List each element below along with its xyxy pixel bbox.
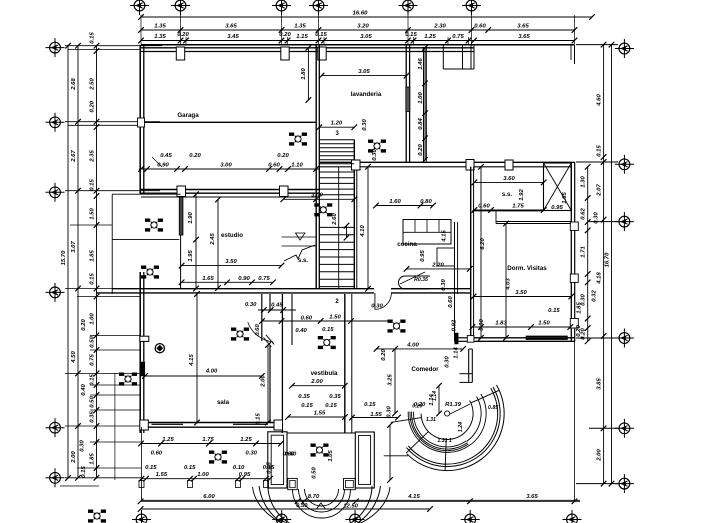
svg-text:2.35: 2.35 (89, 150, 95, 163)
garage bottom wall column 1 (177, 186, 186, 197)
svg-text:0.30: 0.30 (245, 302, 257, 308)
svg-text:0.20: 0.20 (279, 32, 291, 38)
stair second flight treads (319, 171, 354, 173)
sala door leaf (266, 335, 274, 345)
comedor radius center circle (445, 411, 450, 416)
svg-text:0.20: 0.20 (576, 325, 582, 337)
svg-text:4.15: 4.15 (189, 354, 195, 367)
entry steps arcs (305, 489, 339, 506)
svg-text:1.50: 1.50 (329, 315, 341, 321)
svg-text:0.15: 0.15 (81, 466, 87, 478)
svg-text:1.50: 1.50 (89, 208, 95, 220)
svg-text:1.75: 1.75 (512, 204, 524, 210)
ceiling light symbol 1 (289, 133, 307, 146)
svg-text:3.20: 3.20 (357, 24, 369, 30)
svg-text:3.50: 3.50 (225, 259, 237, 265)
svg-text:0.15: 0.15 (322, 327, 334, 333)
lavanderia right vertical dims (424, 48, 426, 160)
svg-text:1.30: 1.30 (581, 176, 587, 188)
svg-text:0.90: 0.90 (238, 276, 250, 282)
estudio dim row 3.50 (182, 265, 282, 267)
stair under-stair break line (284, 245, 315, 261)
estudio dim row 1.65/0.90/0.75 (182, 281, 273, 283)
storage divider (112, 239, 179, 241)
svg-text:0.92: 0.92 (451, 319, 457, 331)
svg-text:3.00: 3.00 (220, 163, 232, 169)
svg-text:1.60: 1.60 (389, 199, 401, 205)
svg-text:0.20: 0.20 (89, 100, 95, 112)
grid bubble top 2 (171, 0, 190, 15)
terrace to porch line (384, 455, 408, 457)
stair upper flight treads (319, 139, 354, 141)
svg-text:3.85: 3.85 (596, 378, 602, 390)
bottom column boxes (139, 481, 144, 488)
svg-text:0.30: 0.30 (80, 440, 86, 452)
svg-text:3.05: 3.05 (360, 34, 372, 40)
kitchen fridge (437, 248, 455, 266)
svg-text:2.45: 2.45 (210, 233, 216, 246)
svg-text:1.31 1: 1.31 1 (437, 438, 452, 444)
svg-text:0.15: 0.15 (263, 465, 275, 471)
svg-text:1.20: 1.20 (331, 121, 343, 127)
svg-text:1.05: 1.05 (328, 450, 334, 462)
svg-text:Garaga: Garaga (177, 112, 199, 119)
vestibula right wall (344, 294, 346, 433)
vestibula dims (292, 385, 345, 387)
comedor vertical dim 3.25 (394, 349, 396, 414)
ceiling light symbol 7 (209, 451, 227, 464)
grid bubble left 1 (46, 38, 65, 57)
svg-text:1.65: 1.65 (202, 276, 214, 282)
sala door arc (248, 322, 274, 342)
svg-text:4.03: 4.03 (506, 278, 512, 291)
svg-text:1.31: 1.31 (426, 417, 436, 423)
sala left wall solid segment (140, 362, 145, 376)
svg-text:2.68: 2.68 (71, 78, 77, 91)
ss bottom wall (472, 210, 544, 212)
ceiling light symbol 4 (141, 266, 159, 279)
main horizontal wall y162 (320, 161, 575, 163)
exterior wall right (570, 162, 572, 341)
sala left wall column box (140, 336, 149, 341)
wall stub cocina-dorm junction (458, 337, 472, 339)
svg-text:0.15: 0.15 (89, 32, 95, 44)
stair left wall (315, 45, 317, 289)
svg-text:3.05: 3.05 (358, 69, 370, 75)
svg-text:2.50: 2.50 (89, 78, 95, 91)
left bumpout wall (111, 194, 113, 294)
svg-text:sala: sala (217, 399, 230, 406)
left dimension column 2 (77, 46, 79, 478)
svg-text:R0.35: R0.35 (414, 277, 428, 283)
svg-text:1.85: 1.85 (90, 453, 96, 465)
sala ceiling rosette symbol (155, 344, 164, 353)
left-bottom dim extension line (114, 373, 116, 480)
svg-text:0.60: 0.60 (448, 296, 454, 308)
grid bubble bottom 3 (346, 510, 365, 523)
svg-text:0.40: 0.40 (81, 384, 87, 396)
right overall dimension 16.70 (611, 45, 613, 484)
ceiling light symbol 6 (388, 320, 406, 333)
kitchen dims (376, 205, 433, 207)
ceiling light symbol 2 (368, 140, 386, 153)
grid bubble right 2 (615, 155, 634, 174)
svg-text:0.95: 0.95 (239, 472, 251, 478)
svg-text:1.55: 1.55 (156, 472, 168, 478)
top dimension row 2 (141, 40, 575, 42)
svg-text:4.10: 4.10 (360, 225, 366, 238)
bottom left wall extension (141, 427, 143, 500)
exterior wall left sala (139, 272, 141, 433)
sala bottom dim row 1 (141, 443, 281, 445)
exterior wall top outer (141, 44, 575, 46)
grid bubble bottom 2 (272, 510, 291, 523)
svg-text:0.15: 0.15 (89, 179, 95, 191)
svg-text:0.15: 0.15 (325, 403, 337, 409)
svg-text:lavanderia: lavanderia (351, 91, 382, 98)
svg-text:s.s.: s.s. (298, 258, 308, 264)
entry porch right pier (355, 432, 374, 488)
kitchen counter (403, 220, 451, 245)
dorm vertical dim 4.03 (505, 224, 507, 338)
svg-text:1.46: 1.46 (418, 58, 424, 70)
svg-text:0.75: 0.75 (89, 354, 95, 366)
entry outer step arc (253, 487, 391, 523)
sala bottom dim row 4 (142, 478, 271, 480)
svg-text:0.75: 0.75 (258, 276, 270, 282)
ss closet shelf (496, 221, 571, 223)
top extension lines (140, 15, 142, 44)
svg-text:0.10: 0.10 (233, 465, 245, 471)
svg-text:0.45: 0.45 (160, 153, 172, 159)
svg-text:2.00: 2.00 (261, 375, 267, 388)
svg-text:0.60: 0.60 (151, 451, 163, 457)
svg-text:0.60: 0.60 (474, 24, 486, 30)
svg-text:0.15: 0.15 (548, 308, 560, 314)
svg-text:0.15: 0.15 (315, 32, 327, 38)
wall stub x574 (574, 45, 576, 64)
svg-text:0.60: 0.60 (478, 204, 490, 210)
svg-text:2.00: 2.00 (596, 449, 602, 462)
ceiling light symbol 9 (88, 510, 106, 523)
lavanderia interior dim 1.80 (307, 48, 309, 100)
ceiling light symbol 11 (318, 336, 336, 349)
svg-text:0.15: 0.15 (184, 465, 196, 471)
left dimension column 3 (96, 46, 98, 478)
svg-text:6.20: 6.20 (480, 238, 486, 250)
grid bubble top 1 (130, 0, 149, 15)
entry porch U arc inner (268, 486, 372, 523)
svg-text:0.60: 0.60 (283, 452, 295, 458)
ss dims (474, 181, 543, 183)
svg-text:4.50: 4.50 (71, 351, 77, 364)
grid bubble left 5 (46, 418, 65, 437)
svg-text:0.20: 0.20 (81, 319, 87, 331)
svg-text:0.50: 0.50 (89, 396, 95, 408)
svg-text:0.30: 0.30 (245, 451, 257, 457)
svg-text:0.50: 0.50 (89, 336, 95, 348)
svg-text:1.85: 1.85 (577, 302, 583, 314)
svg-text:0.90: 0.90 (479, 319, 485, 331)
svg-text:1.90: 1.90 (188, 212, 194, 224)
svg-text:3.60: 3.60 (503, 176, 515, 182)
grid bubble top 4 (309, 0, 328, 15)
stair lower flight treads (319, 226, 354, 228)
storage chase wall (179, 197, 183, 235)
entry porch left pier (268, 432, 287, 488)
svg-text:1.24: 1.24 (458, 422, 464, 432)
terrace inner arc (421, 401, 473, 440)
sala right wall (261, 294, 263, 341)
stair center line (338, 167, 340, 288)
svg-text:15.70: 15.70 (61, 250, 67, 265)
wall y162 column 3 (505, 160, 513, 170)
svg-text:1.71: 1.71 (581, 246, 587, 257)
chimney box with X (544, 163, 572, 211)
svg-text:0.75: 0.75 (452, 34, 464, 40)
svg-text:0.20: 0.20 (189, 153, 201, 159)
grid bubble right 5 (615, 419, 634, 438)
svg-text:0.15: 0.15 (89, 273, 95, 285)
entry vertical dim (389, 425, 391, 480)
grid bubble bottom 5 (563, 510, 582, 523)
cocina vertical dim 4.10 (367, 167, 369, 289)
svg-text:0.85: 0.85 (488, 405, 498, 411)
lavanderia right wall (405, 45, 407, 162)
right dimension column inner (603, 45, 605, 484)
svg-text:4.00: 4.00 (406, 342, 419, 348)
svg-text:2.20: 2.20 (431, 262, 444, 268)
svg-text:0.15: 0.15 (405, 32, 417, 38)
garage bottom wall column 2 (280, 186, 289, 197)
svg-text:estudio: estudio (221, 232, 243, 239)
grid bubble bottom 4 (461, 510, 480, 523)
vestibula left wall (281, 294, 283, 433)
terrace band arcs (414, 412, 467, 447)
lavanderia second wall (423, 47, 425, 162)
grid bubble top 5 (399, 0, 418, 15)
svg-text:0.20: 0.20 (381, 349, 387, 361)
exterior wall top inner (141, 47, 474, 49)
svg-text:1.95: 1.95 (188, 250, 194, 262)
svg-text:0.30: 0.30 (594, 212, 600, 224)
svg-text:1.00: 1.00 (418, 92, 424, 104)
svg-text:3.65: 3.65 (526, 494, 538, 500)
svg-text:0.35: 0.35 (329, 394, 341, 400)
svg-text:0.90: 0.90 (157, 163, 169, 169)
entry porch U arc outer (259, 486, 380, 523)
grid bubble right 1 (615, 39, 634, 58)
svg-text:0.15: 0.15 (256, 413, 262, 425)
entry porch small box left (288, 478, 297, 489)
kitchen right wall solid base (455, 333, 459, 344)
svg-text:0.20: 0.20 (177, 32, 189, 38)
svg-text:3.50: 3.50 (515, 290, 527, 296)
svg-text:vestibula: vestibula (311, 370, 338, 377)
svg-text:0.32: 0.32 (592, 290, 598, 302)
stair mid-landing dim (283, 198, 354, 200)
svg-text:0.95: 0.95 (551, 205, 563, 211)
svg-text:Comedor: Comedor (411, 366, 439, 373)
svg-text:1.14: 1.14 (454, 347, 460, 359)
right wall extension line (574, 341, 576, 501)
estudio left wall (180, 235, 182, 289)
dorm closet line (496, 221, 535, 223)
svg-text:1.00: 1.00 (197, 472, 209, 478)
garage bottom wall (140, 189, 320, 191)
right wall column boxes (570, 222, 578, 230)
bottom long line (141, 499, 580, 501)
lavanderia dim 3.05 (322, 75, 407, 77)
svg-text:16.70: 16.70 (604, 252, 610, 267)
svg-text:0.45: 0.45 (271, 303, 283, 309)
svg-text:0.35: 0.35 (89, 411, 95, 423)
svg-text:0.15: 0.15 (301, 403, 313, 409)
sala bottom window sills (152, 423, 184, 425)
dorm vertical dim 6.20 (480, 167, 482, 338)
main horizontal wall y289 (112, 288, 374, 290)
garage left wall column (138, 118, 145, 127)
grid bubble top 6 (462, 0, 481, 15)
svg-text:4.15: 4.15 (441, 230, 447, 243)
svg-text:Dorm. Visitas: Dorm. Visitas (507, 265, 547, 272)
svg-text:12.50: 12.50 (343, 504, 358, 510)
wall stubs x462-474 (462, 45, 464, 69)
svg-text:0.15: 0.15 (89, 374, 95, 386)
grid bubble left 2 (46, 113, 65, 132)
sala vertical dim 4.15 (196, 294, 198, 423)
grid bubble right 3 (615, 212, 634, 231)
svg-text:0.15: 0.15 (364, 402, 376, 408)
estudio top wall inner line (141, 196, 316, 198)
svg-text:1.80: 1.80 (301, 68, 307, 80)
svg-text:1.14: 1.14 (432, 391, 438, 401)
svg-text:0.30: 0.30 (445, 356, 451, 368)
sala bottom wall (140, 422, 282, 424)
svg-text:4.00: 4.00 (205, 369, 218, 375)
entry porch small box right (344, 478, 356, 489)
sala corner columns (140, 420, 149, 430)
svg-text:1.35: 1.35 (294, 24, 306, 30)
svg-text:1.83: 1.83 (495, 321, 507, 327)
garage divider wall (143, 121, 316, 123)
right tick rows (576, 44, 618, 46)
garage dimension row (139, 168, 320, 170)
sala-vestibula door opening dim (258, 309, 296, 311)
svg-text:2.00: 2.00 (310, 379, 323, 385)
svg-text:0.40: 0.40 (295, 328, 307, 334)
svg-text:cocina: cocina (397, 241, 417, 248)
cocina bottom dim 2.20 (407, 268, 470, 270)
svg-text:3.07: 3.07 (71, 241, 77, 253)
grid bubble left 4 (46, 283, 65, 302)
grid bubble bottom 1 (132, 510, 151, 523)
svg-text:3.65: 3.65 (517, 24, 529, 30)
wall y162 column 1 (352, 160, 361, 170)
svg-text:0.30: 0.30 (387, 406, 393, 418)
bottom dimension row 6.00 / 8.70 / 4.15 / 3.65 (141, 500, 580, 502)
ceiling light symbol 5 (231, 328, 249, 341)
dorm bottom wall (472, 337, 575, 339)
svg-text:3.45: 3.45 (227, 34, 239, 40)
svg-text:0.20: 0.20 (418, 144, 424, 156)
stair dim 1.20 (319, 126, 354, 128)
svg-text:6.00: 6.00 (203, 494, 215, 500)
svg-text:8.70: 8.70 (308, 494, 320, 500)
svg-text:16.60: 16.60 (353, 11, 368, 17)
svg-text:0.60: 0.60 (255, 324, 261, 336)
ceiling light symbol 8 (311, 444, 329, 457)
entry threshold line (287, 432, 355, 434)
ceiling light symbol 3 (145, 219, 163, 232)
sala right vertical dim 2.00 (267, 345, 269, 423)
svg-text:0.30: 0.30 (371, 304, 383, 310)
svg-text:1.55: 1.55 (314, 411, 326, 417)
bottom datum triangle (316, 503, 325, 509)
svg-text:0.15: 0.15 (145, 465, 157, 471)
svg-text:0.20: 0.20 (412, 404, 422, 410)
svg-text:4.18: 4.18 (596, 272, 602, 285)
grid bubble left 6 (46, 468, 65, 487)
svg-text:0.30: 0.30 (362, 119, 368, 131)
bottom dimension row 0.50 / 12.50 (141, 508, 430, 510)
ceiling light symbol 12 (314, 203, 332, 216)
comedor right wall corner (468, 349, 470, 382)
ceiling light symbol 10 (119, 373, 137, 386)
grid bubble right 4 (615, 329, 634, 348)
stair under door triangle (296, 233, 306, 240)
svg-text:0.62: 0.62 (581, 208, 587, 220)
wall stub x443 (442, 45, 444, 69)
top wall columns (176, 47, 184, 60)
svg-text:3.65: 3.65 (518, 34, 530, 40)
svg-text:2.60: 2.60 (332, 213, 338, 226)
svg-text:0.80: 0.80 (420, 199, 432, 205)
svg-text:0.60: 0.60 (268, 163, 280, 169)
estudio dim 2.45 (217, 200, 219, 289)
grid bubble top 3 (272, 0, 291, 15)
grid bubble left 3 (46, 183, 65, 202)
right wall segment dim line (587, 167, 589, 341)
door arc comedor entry (375, 293, 392, 310)
dorm bottom window sill (526, 335, 568, 337)
overall top dimension 16.60 (141, 16, 592, 18)
svg-text:0.95: 0.95 (420, 250, 426, 262)
svg-text:0.50: 0.50 (312, 467, 318, 479)
top dimension row 1 (141, 29, 575, 31)
svg-text:1.25: 1.25 (240, 437, 252, 443)
svg-text:3.65: 3.65 (225, 24, 237, 30)
svg-text:2.07: 2.07 (596, 184, 602, 197)
svg-text:4.60: 4.60 (596, 94, 602, 107)
terrace outer arcs (408, 388, 497, 464)
svg-text:1.10: 1.10 (291, 163, 303, 169)
svg-text:2.00: 2.00 (71, 451, 77, 464)
svg-text:3.00: 3.00 (311, 193, 323, 199)
svg-text:1.25: 1.25 (162, 437, 174, 443)
svg-text:1.85: 1.85 (89, 250, 95, 262)
wall between cocina and dorm (470, 167, 472, 342)
svg-text:1.75: 1.75 (202, 437, 214, 443)
svg-text:1.50: 1.50 (538, 321, 550, 327)
left tick rows (65, 45, 162, 47)
exterior wall left garage (139, 45, 141, 194)
svg-text:R1.39: R1.39 (445, 402, 461, 408)
grid bubble right 6 (615, 474, 634, 493)
stair under-stair treads (282, 236, 318, 238)
svg-text:0.20: 0.20 (277, 153, 289, 159)
svg-text:3.25: 3.25 (388, 374, 394, 386)
